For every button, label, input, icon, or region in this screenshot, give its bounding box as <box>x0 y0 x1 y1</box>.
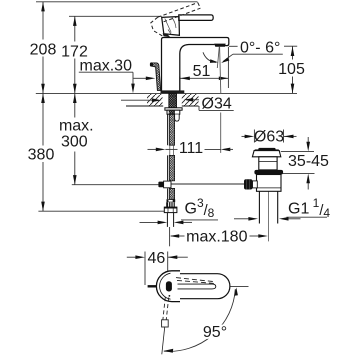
braided supply hose below deck <box>168 114 175 199</box>
svg-text:111: 111 <box>179 140 203 157</box>
drain flange Ø63 <box>252 151 280 157</box>
knurled ferrule <box>166 202 175 207</box>
svg-text:0°- 6°: 0°- 6° <box>240 40 280 57</box>
dimension max.300 <box>59 93 94 184</box>
extension line: pop-up rod level <box>72 184 159 186</box>
label Ø34 hole diameter with arrows <box>121 95 235 113</box>
swivelled lever position dashed (plan view) <box>162 297 169 354</box>
svg-text:35-45: 35-45 <box>288 153 329 170</box>
dimension 51 <box>180 47 229 91</box>
faucet body and spout outline (front view) <box>162 38 229 91</box>
svg-text:max.180: max.180 <box>186 228 247 245</box>
svg-text:max.30: max.30 <box>80 58 133 75</box>
dimension 172 <box>61 16 88 93</box>
svg-text:95°: 95° <box>203 324 227 341</box>
G3/8 connection pipe stub <box>167 213 173 227</box>
handle cartridge housing (front view) <box>162 17 180 36</box>
drain seal ring <box>254 170 283 175</box>
handle housing (plan view) <box>156 271 180 302</box>
drain plug cap <box>255 148 279 151</box>
dimension 111 <box>148 140 234 157</box>
svg-text:51: 51 <box>193 63 211 80</box>
svg-text:380: 380 <box>28 147 55 164</box>
mounting washer <box>165 108 182 110</box>
lever axis dot (plan view) <box>166 281 172 297</box>
label max.30 with leader arrows <box>79 58 156 94</box>
svg-text:max.: max. <box>59 118 94 135</box>
supply hose bend above deck <box>150 62 161 90</box>
label G1 1/4 with pipe arrows <box>234 196 330 221</box>
drain centerline <box>267 191 269 242</box>
swivel angle arc 95° <box>164 288 238 353</box>
spout body (plan view) <box>162 274 230 299</box>
dimension Ø63 <box>242 129 297 146</box>
spout channel (plan view) <box>178 284 216 289</box>
dimension max.180 <box>170 227 268 246</box>
extension line: raised lever top level <box>36 1 198 3</box>
dimension 35-45 <box>281 137 329 190</box>
drain tail pipe G1 1/4 <box>259 191 277 223</box>
svg-text:105: 105 <box>278 61 305 78</box>
rod knob on drain <box>244 179 257 189</box>
drain neck <box>259 157 277 170</box>
extension line: countertop reference <box>36 92 297 94</box>
svg-text:208: 208 <box>30 42 57 59</box>
svg-text:46: 46 <box>148 250 166 267</box>
threaded shank through deck <box>169 93 177 107</box>
countertop cross-section with hatching <box>126 94 199 106</box>
lever handle bar (front view) <box>179 15 213 21</box>
mounting nut <box>167 110 180 114</box>
svg-text:Ø34: Ø34 <box>202 95 232 112</box>
label G3/8 with pipe arrows <box>140 196 219 224</box>
extension line: lever rest top level <box>69 15 162 17</box>
dimension 380 <box>28 93 55 211</box>
label 0°-6° stream angle with leader and angle arc <box>203 40 283 64</box>
plan reference line <box>230 286 248 288</box>
hose end collar <box>167 199 176 202</box>
extension line: hose end level <box>38 210 164 212</box>
G3/8 hex nut <box>164 207 177 213</box>
dimension 46 (plan view) <box>127 250 188 285</box>
drain lower body <box>257 175 282 192</box>
faucet tail stub <box>175 114 180 121</box>
lever tip (plan view) <box>148 285 157 287</box>
water stream lines <box>217 47 221 153</box>
svg-text:Ø63: Ø63 <box>254 129 284 146</box>
spout hidden edges dashed (plan view) <box>176 278 214 284</box>
dimension 208 <box>30 2 57 94</box>
rod clamp at hose <box>158 181 171 188</box>
pop-up waste rod <box>167 183 245 184</box>
svg-text:300: 300 <box>61 134 88 151</box>
shadow wedge under handle <box>163 33 171 37</box>
raised lever position (dashed) <box>151 3 201 36</box>
base gasket <box>161 90 185 93</box>
aerator (mousseur) <box>214 44 226 47</box>
dimension 105 <box>229 46 305 93</box>
